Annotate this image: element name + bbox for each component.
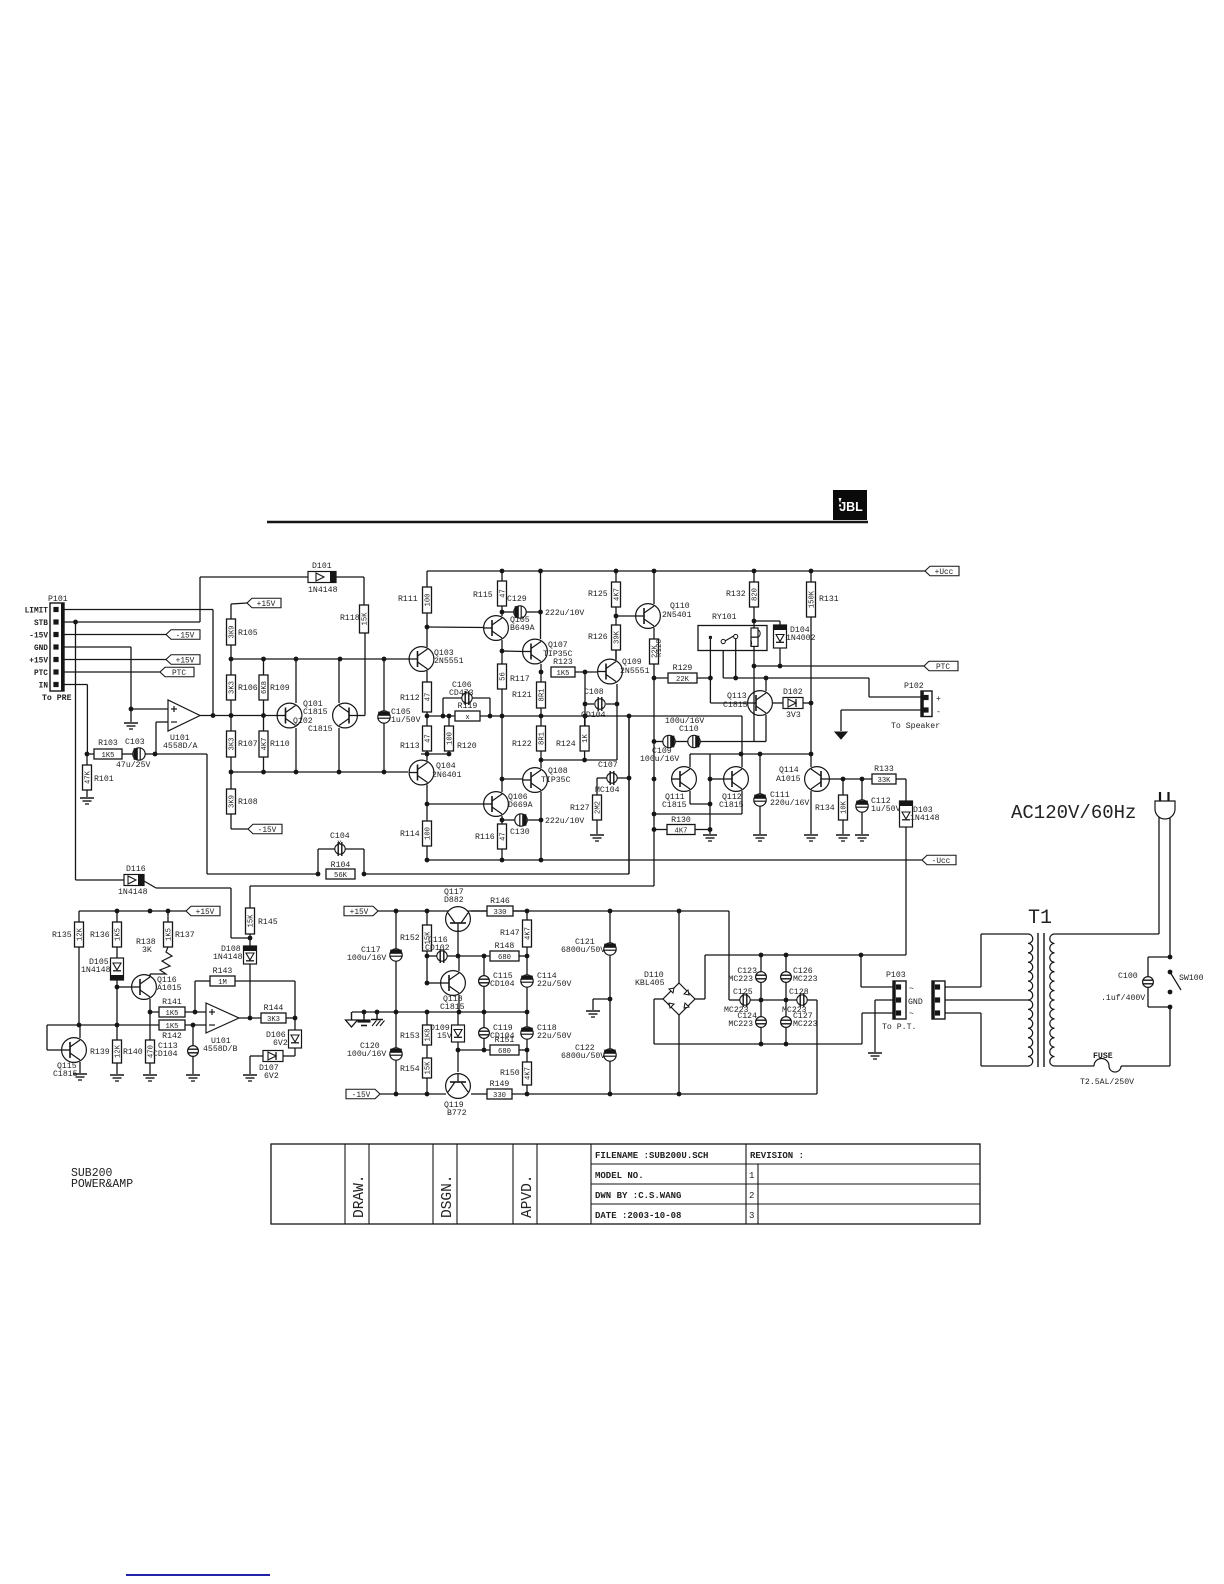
label C114 value [537,979,571,989]
label U101A [170,734,190,743]
svg-text:B772: B772 [447,1109,467,1118]
label C130 [510,828,530,837]
pin label -15V [29,633,48,641]
label C125 [733,988,753,997]
label C120 value [347,1049,386,1059]
wire opamp A + input [131,708,168,710]
ground P103 [868,1053,882,1059]
wire to R133 [843,778,872,780]
svg-text:100u/16V: 100u/16V [347,1049,386,1059]
wire to D104 [754,621,780,625]
wire bridge bottom [678,1015,680,1094]
wire y754 node line [693,753,811,755]
svg-text:6K8: 6K8 [261,681,269,694]
svg-text:3K9: 3K9 [229,795,237,808]
wire feedback to R104 [155,754,318,874]
title block table [271,1144,980,1224]
junction [293,1016,298,1021]
net flag +15V [166,655,200,666]
transistor Q115 C1815 [62,1038,87,1063]
svg-text:R113: R113 [400,742,420,751]
label Q108 value [541,776,571,785]
wire Q117 emitter [457,930,459,956]
wire R120 bottom [448,751,450,754]
wire C120 bottom [395,1060,397,1094]
wire D107 to ground [250,1056,263,1074]
label P102 minus [936,708,941,717]
resistor R132 [726,582,760,607]
svg-text:R129: R129 [673,664,693,673]
svg-text:+15V: +15V [257,601,276,609]
wire PTC net [754,665,924,667]
svg-text:Q109: Q109 [622,658,642,667]
svg-text:47u/25V: 47u/25V [116,760,150,770]
label C115 [493,972,513,981]
svg-text:4558D/B: 4558D/B [203,1044,237,1054]
wire R153 top [426,1012,428,1025]
label D109 value [437,1032,452,1041]
svg-text:R104: R104 [331,861,351,870]
resistor R127 [570,795,603,820]
transistor Q105 B649A [484,616,509,641]
wire R143 right [235,981,295,1018]
resistor R136 [90,922,123,947]
label C117 value [347,953,386,963]
svg-text:1K5: 1K5 [166,1010,179,1018]
wire Q105 emitter [501,640,503,664]
wire C126 top [785,955,787,972]
svg-text:P101: P101 [48,595,68,604]
svg-text:2: 2 [749,1191,754,1201]
wire R130 right [695,829,710,831]
ground GND pin [124,723,138,729]
svg-text:D102: D102 [783,688,803,697]
capacitor C126 MC223 [781,972,792,983]
svg-text:A1015: A1015 [776,775,801,784]
svg-text:6V2: 6V2 [273,1039,288,1048]
wire R139 bottom [116,1063,118,1074]
svg-text:330: 330 [494,909,507,917]
resistor R109 [259,675,290,700]
wire relay pin2 [735,639,737,679]
label R138 value [142,946,152,955]
wire stub [653,665,655,667]
junction dots [394,909,682,914]
svg-text:2N5551: 2N5551 [434,657,464,666]
wire R110 bottom [263,757,265,772]
label Q113 value [723,701,748,710]
wire Q110 base [616,615,637,617]
wire opamp A - input [156,722,168,754]
wire R116 bottom [501,849,503,860]
wire P103 gnd pin [875,1000,893,1052]
wire primary bottom [945,1013,1028,1066]
capacitor C129 [514,606,526,618]
svg-text:R110: R110 [270,740,290,749]
svg-text:~: ~ [909,985,914,994]
svg-text:C100: C100 [1118,972,1138,981]
wire Q108 emitter to -Ucc [540,820,542,860]
svg-text:47: 47 [425,693,433,702]
ground C112 [855,835,869,841]
label U101A value [163,741,197,751]
svg-text:R145: R145 [258,918,278,927]
svg-text:~: ~ [909,1010,914,1019]
net flag -15V [248,824,282,835]
svg-text:+15V: +15V [176,658,195,666]
wire R153-R154 [426,1045,428,1058]
wire fuse to switch [1121,1065,1170,1067]
label SW100 [1179,974,1204,983]
svg-text:CD102: CD102 [425,944,450,953]
junction dots [652,739,657,832]
wire R127 top [596,778,598,795]
wire C130 right [527,819,541,821]
wire secondary top [1055,933,1160,935]
wire R137 top [167,911,169,922]
wire C111 bottom [759,806,761,834]
svg-text:LIMIT: LIMIT [25,608,49,616]
svg-text:3K9: 3K9 [229,626,237,639]
wire x585 column [584,672,586,726]
junction dots [759,953,864,958]
wire R149 left [471,1093,487,1095]
svg-text:-15V: -15V [29,633,48,641]
svg-text:Q104: Q104 [436,762,456,771]
wire Q115 collector [79,1025,81,1038]
ground R134 [836,835,850,841]
junction [764,676,769,681]
capacitor C122 [604,1049,616,1061]
wire R109 bottom [263,700,265,716]
label C118 [537,1024,557,1033]
wire IN net [64,685,87,755]
label C113 [158,1042,178,1051]
resistor R129 [668,664,697,684]
label P102 plus [936,695,941,704]
svg-text:P103: P103 [886,971,906,980]
junction [248,936,253,941]
svg-text:R115: R115 [473,591,493,600]
pin label LIMIT [25,608,49,616]
label D105 value [81,966,111,975]
wire R123 to Q109 base [575,671,597,673]
label C127 [793,1012,813,1021]
junction dots [115,909,171,914]
resistor R123 [551,658,575,678]
wire relay pole to Q113 base [709,639,711,703]
svg-text:R120: R120 [457,742,477,751]
resistor R151 [490,1036,519,1056]
capacitor C114 [521,975,533,987]
svg-text:Q114: Q114 [779,766,799,775]
wire coil to C110 [753,666,755,742]
svg-text:2N5401: 2N5401 [662,611,692,620]
wire Q113 emitter [754,715,766,742]
label C100 [1118,972,1138,981]
capacitor C103 [133,748,145,760]
resistor R101 [83,765,114,790]
resistor R144 [261,1004,286,1024]
resistor R117 [498,664,530,689]
svg-text:R117: R117 [510,675,530,684]
wire R133 to D103 [896,779,906,801]
label P102 [904,682,924,691]
svg-text:150K: 150K [809,590,817,608]
junction [482,1048,487,1053]
resistor R153 [400,1025,433,1045]
wire x654 column [653,742,655,887]
wire - input line [47,1024,206,1026]
label Q116 value [157,984,182,993]
wire Q102 emitter [295,728,297,772]
capacitor C125 MC223 [740,993,750,1007]
svg-text:B649A: B649A [510,624,535,633]
junction [539,670,544,675]
svg-text:R128: R128 [656,639,664,657]
svg-text:CD104: CD104 [581,711,606,720]
svg-text:+15V: +15V [350,909,369,917]
svg-text:12K: 12K [77,927,85,941]
label D107 [259,1064,279,1073]
junction [809,701,814,706]
wire primary top [981,934,1028,987]
op-amp U101/A [168,700,200,731]
ground P102 [835,732,847,739]
transistor Q101 C1815 [333,703,358,728]
wire R134 bottom [842,820,844,834]
label C122 value [561,1051,605,1061]
label C111 value [770,798,809,808]
label Q111 [665,793,685,802]
label DRAW [352,1174,368,1218]
label P103 [886,971,906,980]
junction dots [115,985,120,1028]
label D103 [913,806,933,815]
label Q106 [508,793,528,802]
svg-text:6800u/50V: 6800u/50V [561,1051,605,1061]
junction [73,620,78,625]
bridge rectifier D110 KBL405 [663,983,695,1015]
label Q119 value [447,1109,467,1118]
label C119 [493,1024,513,1033]
capacitor C120 [390,1048,402,1060]
wire C115 top [483,956,485,976]
junction [778,664,783,669]
svg-text:1N4148: 1N4148 [81,966,111,975]
transistor Q106 D669A [484,792,509,817]
wire PTC row [64,671,160,673]
capacitor C117 [390,949,402,961]
resistor R152 [400,925,433,951]
resistor R145 [246,908,278,934]
wire D104 bottom [779,648,781,666]
transistor Q118 C1815 [441,971,466,996]
wire relay contact to speaker [723,678,921,697]
wire C124 bottom [760,1027,762,1044]
svg-text:R150: R150 [500,1069,520,1078]
junction [539,758,544,763]
svg-text:PTC: PTC [34,670,48,678]
wire R145 top [249,886,251,908]
transistor Q104 2N6401 [409,760,434,785]
svg-text:8R1: 8R1 [539,732,547,745]
net flag +15V [186,906,220,917]
wire D109 top [457,1012,459,1025]
wire switch to fuse [1169,1007,1171,1066]
label C111 [770,791,790,800]
wire to ground C121 [593,999,610,1010]
resistor R154 [400,1058,433,1078]
transistor Q112 C1815 [724,767,749,792]
transistor Q117 D882 [446,907,471,932]
capacitor C105 [378,711,390,723]
svg-text:3V3: 3V3 [786,711,801,720]
svg-text:R109: R109 [270,684,290,693]
diode D116 1N4148 [124,875,144,886]
wire R122 bottom [540,751,542,768]
wire Q111 emitter [690,791,710,804]
wire R147 bottom [526,947,528,956]
wire R150 top [526,1050,528,1062]
label U101B [211,1037,231,1046]
wire Q103 to Q105 base [427,626,484,629]
wire R105-R106 [230,645,232,675]
junction [375,1010,380,1015]
wire R105 to +15V flag [231,603,247,608]
capacitor C118 [521,1027,533,1039]
wire C103 out [145,753,155,755]
label C104 [330,832,350,841]
wire R143 left [195,981,210,1012]
op-amp U101/B [206,1003,239,1033]
wire R152 bottom [426,951,428,983]
svg-text:1N4148: 1N4148 [910,814,940,823]
svg-text:D669A: D669A [508,801,533,810]
label P103 GND [908,998,923,1007]
label C105 [391,708,411,717]
wire Q101 base to R118 [357,633,365,716]
wire C100 bottom [1148,987,1170,1007]
svg-text:DSGN.: DSGN. [440,1174,456,1218]
resistor R130 [667,816,695,836]
wire C115 bottom [483,986,485,1012]
junction [615,702,620,707]
wire C120 top [395,1012,397,1048]
wire Q114 top [810,754,812,767]
label C118 value [537,1031,571,1041]
wire coil bottom [753,646,755,666]
label Q103 value [434,657,464,666]
wire to ground [709,830,711,835]
junction [539,818,544,823]
wire Q104 collector down [426,785,428,822]
label Q111 value [662,801,687,810]
svg-text:R116: R116 [475,833,495,842]
label Q107 [548,641,568,650]
capacitor C127 MC223 [781,1017,792,1028]
transistor Q108 TIP35C [523,768,548,793]
resistor R124 [556,726,590,751]
relay RY101 [698,626,767,651]
capacitor C111 [754,794,766,806]
wire C122 bottom [609,1061,611,1094]
svg-text:222u/10V: 222u/10V [545,816,584,826]
svg-text:MC104: MC104 [595,786,620,795]
junction [153,752,158,757]
wire R154 bottom [426,1078,428,1094]
resistor R120 [445,726,477,751]
svg-text:R153: R153 [400,1032,420,1041]
junction [614,614,619,619]
svg-text:REVISION :: REVISION : [750,1151,804,1161]
resistor R150 [500,1062,533,1085]
junction dots [759,998,789,1003]
junction [447,752,452,757]
svg-text:1K5: 1K5 [557,670,570,678]
net flag PTC [160,667,194,678]
svg-text:R124: R124 [556,740,576,749]
svg-text:R135: R135 [52,931,72,940]
svg-text:4K7: 4K7 [675,828,688,836]
resistor R143 [210,967,235,987]
svg-text:12K: 12K [115,1044,123,1058]
wire C100 top [1148,957,1170,977]
wire R148 right [519,955,527,957]
wire R131 to D102/Q114 [810,617,812,754]
wire D108 to output node [249,964,251,1018]
wire Q116 base [117,986,132,988]
label C109 [652,747,672,756]
diode D107 6V2 [263,1051,283,1062]
wire R120 top [448,716,450,726]
resistor R148 [490,942,519,962]
capacitor C119 CD104 [479,1028,490,1039]
label C123 value [728,975,753,984]
label C125 value [724,1006,749,1015]
pin label PTC [34,670,48,678]
capacitor C124 MC223 [756,1017,767,1028]
wire C125-C128 [750,999,797,1001]
svg-text:STB: STB [34,620,48,628]
label Q115 [57,1062,77,1071]
wire R112-R113 [426,712,428,726]
svg-text:+15V: +15V [29,658,48,666]
resistor R138 (3K) [150,947,172,974]
svg-text:C128: C128 [789,988,809,997]
svg-text:R141: R141 [162,998,182,1007]
svg-text:56K: 56K [334,872,348,880]
svg-text:1u/50V: 1u/50V [871,804,901,814]
capacitor C109 [663,735,675,747]
net flag -15V [346,1089,380,1100]
junction [525,1048,530,1053]
svg-text:C129: C129 [507,595,527,604]
wire R114 bottom [426,846,428,860]
svg-text:CD104: CD104 [153,1050,178,1059]
wire AC left lead [1158,816,1160,934]
svg-text:56: 56 [500,672,508,681]
label U101B value [203,1044,237,1054]
label Q102 value [308,725,333,734]
wire R138 to Q116 [149,974,151,976]
wire R151 right [519,1049,527,1051]
net flag +15V [247,598,281,609]
label D106 value [273,1039,288,1048]
label C113 value [153,1050,178,1059]
wire R103 to C103 [122,753,133,755]
junction [193,1010,198,1015]
